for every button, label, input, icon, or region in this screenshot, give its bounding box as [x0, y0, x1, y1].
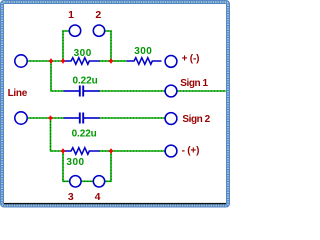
- terminal circle 4: [93, 176, 104, 187]
- terminal Line row C: [15, 112, 27, 124]
- junction J6: [109, 149, 113, 154]
- junction J5: [61, 149, 65, 154]
- terminal Sign 2: [165, 113, 177, 125]
- wire R1 right lead to node J3: [99, 60, 111, 62]
- svg-text:3: 3: [68, 191, 74, 203]
- svg-text:0.22u: 0.22u: [73, 75, 98, 86]
- svg-text:2: 2: [95, 9, 101, 21]
- wire node J3 to R2: [111, 60, 127, 62]
- junction J2: [61, 59, 65, 64]
- svg-text:- (+): - (+): [182, 146, 200, 157]
- border frame (dotted blue selection): [2, 2, 228, 206]
- svg-text:300: 300: [66, 157, 84, 168]
- wire R3 right lead to node J6: [99, 150, 111, 152]
- wire node J4 down to row D: [51, 118, 64, 151]
- svg-text:Sign 1: Sign 1: [180, 78, 208, 89]
- junction J3: [109, 59, 113, 64]
- junction J4: [49, 116, 53, 121]
- bottom black edge line: [4, 203, 226, 204]
- terminal - (+): [165, 145, 177, 157]
- wire node J5 down to terminal 3: [63, 151, 70, 181]
- terminal Line: [15, 55, 27, 67]
- wires: base bright green with dark ticks: [27, 31, 226, 181]
- resistor R3 300 (row D): [64, 148, 100, 155]
- resistor R1 300 (row A left): [64, 58, 100, 65]
- terminal circle 1: [69, 25, 80, 36]
- svg-text:Line: Line: [8, 88, 28, 99]
- svg-text:0.22u: 0.22u: [72, 128, 97, 139]
- wire Sign1 terminal to right border: [177, 90, 226, 92]
- wire C1 to Sign1 terminal: [99, 90, 165, 92]
- capacitor C1 0.22u (row B): [64, 86, 100, 97]
- svg-text:+ (-): + (-): [182, 54, 200, 65]
- svg-text:300: 300: [74, 48, 92, 59]
- svg-text:Sign 2: Sign 2: [182, 114, 210, 125]
- wire between terminals 3 and 4: [81, 180, 93, 182]
- wire C2 to Sign2 terminal: [99, 117, 165, 119]
- terminal circle 3: [70, 176, 81, 187]
- resistor R2 300 (row A right): [127, 58, 162, 65]
- wire node J1 down to row B: [51, 61, 64, 91]
- terminal circle 2: [93, 25, 104, 36]
- wire terminal 2 stub: [105, 31, 111, 61]
- svg-text:300: 300: [134, 46, 152, 57]
- wire terminal 1 stub: [63, 31, 69, 61]
- wire node J6 to - (+) terminal: [111, 150, 165, 152]
- svg-text:1: 1: [68, 9, 74, 21]
- terminal Sign 1: [165, 85, 177, 97]
- svg-text:4: 4: [95, 191, 101, 203]
- capacitor C2 0.22u (row C): [64, 113, 100, 124]
- wire node J6 down to terminal 4: [105, 151, 111, 181]
- wire dark tick texture: [27, 31, 226, 181]
- terminal + (-): [165, 56, 177, 68]
- wire Line terminal to node J2 (row A): [27, 60, 64, 62]
- junction J1: [49, 59, 53, 64]
- wire Line2 terminal to C2 (row C): [27, 117, 64, 119]
